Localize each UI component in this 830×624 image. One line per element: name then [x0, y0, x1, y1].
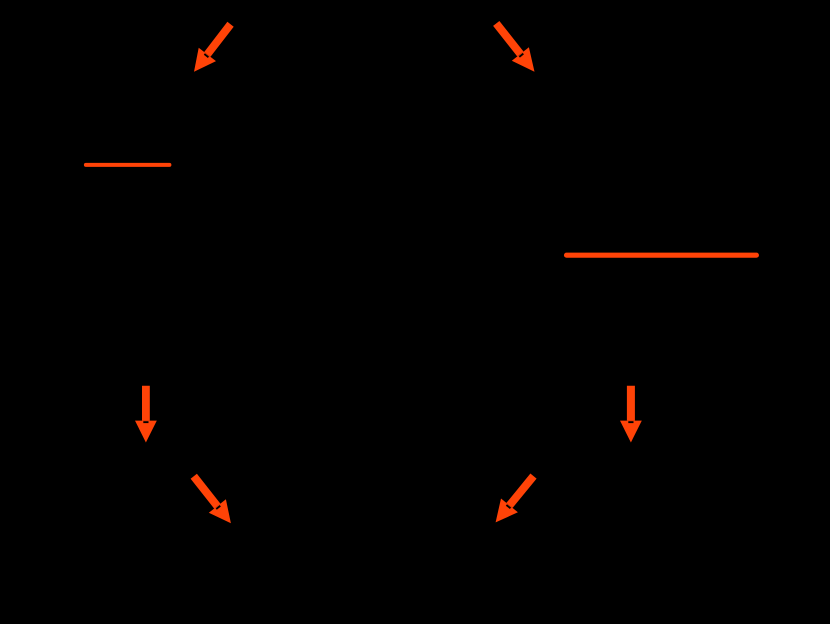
long horizontal line right	[567, 253, 757, 258]
arrow bottom-right pointing down-left	[496, 474, 537, 523]
arrow top-right pointing down-right	[493, 21, 534, 72]
arrow bottom-left pointing down-right	[191, 474, 231, 524]
short horizontal line left	[86, 163, 169, 167]
arrow mid-right vertical pointing down	[620, 386, 642, 443]
arrow top-left pointing down-left	[194, 22, 234, 72]
arrow mid-left vertical pointing down	[135, 386, 157, 443]
